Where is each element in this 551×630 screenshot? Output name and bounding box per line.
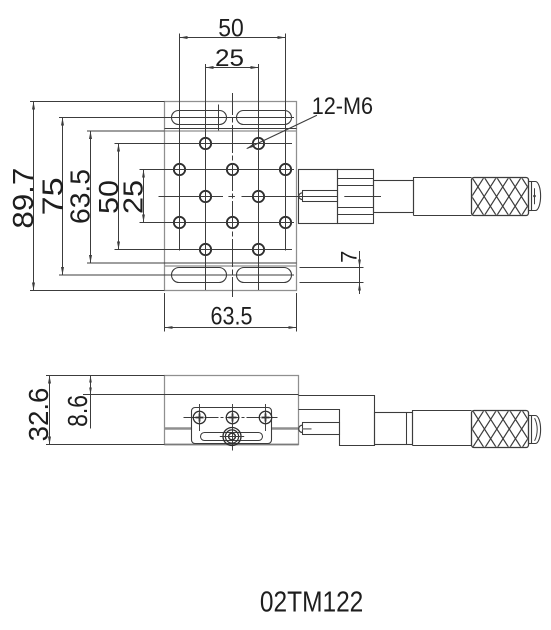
dimension 50 (top) <box>180 14 286 42</box>
centerline row1 <box>115 143 293 145</box>
dimension 63.5 (left) <box>65 131 165 263</box>
thimble end ring (top view) <box>529 182 532 211</box>
phillips screw 2 <box>226 411 238 423</box>
centerline row4 <box>140 222 295 224</box>
carriage bracket plate <box>192 408 272 444</box>
slot arc-center mark <box>218 105 220 131</box>
centerline col3 (vertical axis) <box>232 93 234 297</box>
screw centerline horizontal <box>184 417 278 419</box>
svg-text:7: 7 <box>336 251 361 263</box>
micrometer sleeve large (top view) <box>414 178 472 216</box>
dimension 25 (top) <box>206 45 259 72</box>
svg-text:25: 25 <box>215 45 244 72</box>
M6 tapped hole 7 <box>253 191 264 202</box>
M6 tapped hole 12 <box>253 244 264 255</box>
micrometer block (side view) <box>299 396 375 446</box>
dimension 32.6 (side) <box>23 376 165 445</box>
svg-text:12-M6: 12-M6 <box>312 93 373 120</box>
micrometer sleeve large (side view) <box>413 411 472 446</box>
centerline row2 <box>140 169 295 171</box>
dimension 63.5 (bottom) <box>165 293 297 332</box>
screw 3 vertical centerline <box>265 404 267 431</box>
centerline row3 (axis) <box>159 196 382 198</box>
part number title 02TM122 <box>260 586 363 618</box>
M6 tapped hole 1 <box>200 138 211 149</box>
side view: stage body outline <box>165 376 299 445</box>
svg-text:02TM122: 02TM122 <box>260 586 363 618</box>
dimension 8.6 (side) <box>62 376 165 429</box>
svg-text:50: 50 <box>218 14 244 42</box>
M6 tapped hole 8 <box>174 217 185 228</box>
center vertical line through screw 2 and drive <box>232 404 234 451</box>
knurled thimble (side view) <box>448 411 546 448</box>
micrometer lock housing (top view) <box>338 170 374 224</box>
side view: bottom edge accent <box>165 444 299 446</box>
top view: stage base plate outline <box>165 102 297 291</box>
micrometer mounting block (top view) <box>299 170 338 224</box>
adjustment slot (side view) <box>201 433 263 441</box>
M6 tapped hole 10 <box>280 217 291 228</box>
label 12-M6 with leader <box>246 93 373 149</box>
centerline col2 <box>205 64 207 290</box>
M6 tapped hole 2 <box>253 138 264 149</box>
svg-text:63.5: 63.5 <box>211 302 253 330</box>
end cap (top view) <box>532 182 541 211</box>
dimension 75 (left) <box>37 118 294 276</box>
centerline col5 <box>285 34 287 251</box>
dimension 25 (left) <box>118 170 149 223</box>
centerline row5 <box>115 249 293 251</box>
centerline col4 <box>258 64 260 290</box>
M6 tapped hole 9 <box>227 217 238 228</box>
spindle (side view) <box>299 423 340 435</box>
phillips screw 3 <box>259 411 271 423</box>
knurled thimble (top view) <box>447 178 546 216</box>
dimension 7 (slot height) <box>300 251 364 294</box>
mounting slot top-left <box>172 111 227 125</box>
svg-text:63.5: 63.5 <box>65 169 96 224</box>
svg-text:8.6: 8.6 <box>62 395 93 427</box>
thimble end ring (side view) <box>529 416 532 444</box>
dimension 89.7 (left) <box>8 102 165 291</box>
mounting slot bottom-right <box>237 268 292 283</box>
top view: platform edge lines <box>165 129 297 267</box>
mounting slot bottom-left <box>172 268 227 283</box>
side view: carriage split line <box>83 394 299 396</box>
phillips screw 1 <box>193 411 205 423</box>
dovetail rail line left <box>165 427 192 430</box>
svg-text:25: 25 <box>118 180 149 214</box>
drive screw boss circles <box>220 428 244 446</box>
M6 tapped hole 6 <box>200 191 211 202</box>
mounting slot top-right <box>237 111 292 125</box>
M6 tapped hole 5 <box>280 164 291 175</box>
dimension 50 (left) <box>93 144 124 250</box>
svg-text:32.6: 32.6 <box>23 388 54 442</box>
M6 tapped hole 4 <box>227 164 238 175</box>
micrometer sleeve small (side view) <box>375 413 413 445</box>
centerline col1 <box>179 34 181 251</box>
end cap (side view) <box>532 416 541 444</box>
M6 tapped hole 11 <box>200 244 211 255</box>
M6 tapped hole 3 <box>174 164 185 175</box>
dovetail rail line right <box>272 427 299 430</box>
svg-text:89.7: 89.7 <box>8 168 40 229</box>
sleeve step line (side view) <box>406 413 408 445</box>
spindle (top view) <box>299 191 338 202</box>
micrometer sleeve small (top view) <box>374 181 414 213</box>
screw 1 vertical centerline <box>199 404 201 431</box>
